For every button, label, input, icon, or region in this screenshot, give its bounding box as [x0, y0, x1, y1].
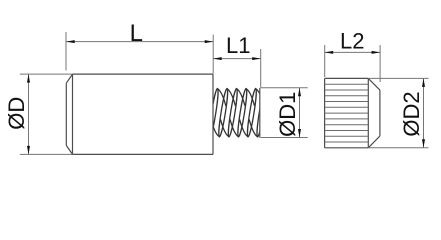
svg-text:ØD2: ØD2	[399, 91, 424, 136]
dimension L1 line	[213, 58, 261, 60]
knurl lines	[325, 84, 369, 142]
dimension D2 line	[423, 78, 425, 147]
thread coil 5	[240, 88, 264, 137]
dimension L line	[66, 41, 213, 43]
dimension D1 arrows	[298, 88, 301, 138]
dimension L1 arrows	[213, 57, 261, 60]
dimension L2 extension lines	[325, 45, 380, 82]
thread coil 3	[221, 88, 245, 137]
dimension D2 extension lines	[368, 78, 428, 147]
dimension L extension lines	[66, 32, 213, 74]
thread coil 4	[230, 88, 254, 137]
thread coil 6	[249, 88, 273, 137]
dimension L1 extension line	[260, 49, 262, 88]
dimension D1 extension lines	[261, 88, 308, 138]
svg-text:L2: L2	[340, 29, 364, 54]
dimension D line	[28, 74, 30, 154]
body outline (standoff cylinder)	[66, 74, 213, 154]
svg-text:ØD: ØD	[4, 97, 29, 130]
dimension L2 arrows	[325, 51, 380, 54]
dimension D extension lines	[20, 74, 73, 154]
dimension D1 line	[299, 88, 301, 138]
dimension L2 line	[325, 51, 380, 53]
dimension D arrows	[27, 74, 30, 154]
svg-text:L1: L1	[226, 33, 250, 58]
thread coil 1	[201, 88, 225, 137]
svg-text:L: L	[130, 20, 143, 47]
svg-text:ØD1: ØD1	[275, 92, 300, 137]
thread end face	[259, 88, 261, 138]
dimension D2 arrows	[422, 78, 425, 147]
dimension L arrows	[66, 40, 213, 43]
knurled nut outline	[325, 78, 380, 147]
thread coil 2	[211, 88, 235, 137]
